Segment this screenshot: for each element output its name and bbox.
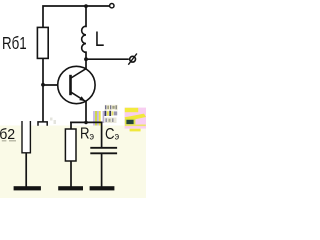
wire R3 bottom lead: [70, 161, 72, 187]
wire inductor top lead: [85, 6, 87, 26]
svg-text:L: L: [95, 27, 105, 51]
resistor R3: [65, 129, 76, 161]
white background (top image): [0, 0, 146, 198]
svg-text:э: э: [115, 131, 120, 143]
resistor R62 cut top bracket: [38, 122, 47, 126]
node emitter junction: [84, 121, 88, 125]
svg-text:Rб1: Rб1: [2, 34, 27, 53]
ground under R3: [58, 186, 83, 190]
node top junction: [84, 4, 88, 8]
ground under C3: [90, 186, 115, 190]
wire emitter node left: [71, 121, 86, 123]
label R3: [80, 126, 94, 143]
wire R3 top lead: [70, 122, 72, 129]
print ghost under label: [2, 140, 16, 142]
svg-text:э: э: [90, 131, 95, 143]
wire emitter node right: [86, 121, 102, 123]
wire inductor bottom lead: [85, 52, 87, 59]
wire base: [43, 84, 58, 86]
wire collector: [85, 59, 87, 69]
decorative thumbnail text fragment: [93, 105, 146, 132]
faint print ghost: [50, 118, 56, 125]
wire output rail: [86, 58, 128, 60]
wire C3 bottom lead: [101, 154, 103, 187]
resistor R62: [22, 121, 30, 153]
wire R61 to base node: [42, 58, 44, 121]
capacitor C3: [90, 148, 117, 154]
label C3: [105, 126, 119, 143]
ground under R62: [14, 186, 41, 190]
wire R62 bottom lead: [25, 153, 27, 187]
svg-text:C: C: [105, 126, 115, 143]
cream background (bottom image): [0, 126, 146, 199]
node base junction: [41, 83, 45, 87]
wire C3 top lead: [101, 122, 103, 147]
node inductor bottom junction: [84, 57, 88, 61]
svg-text:R: R: [80, 126, 90, 143]
terminal top output: [110, 3, 114, 7]
wire emitter lead: [85, 101, 87, 122]
inductor L: [82, 26, 86, 52]
wire top rail: [43, 6, 109, 27]
terminal output slashed: [128, 54, 137, 65]
transistor Q1: [58, 66, 95, 103]
resistor R61: [37, 27, 48, 58]
